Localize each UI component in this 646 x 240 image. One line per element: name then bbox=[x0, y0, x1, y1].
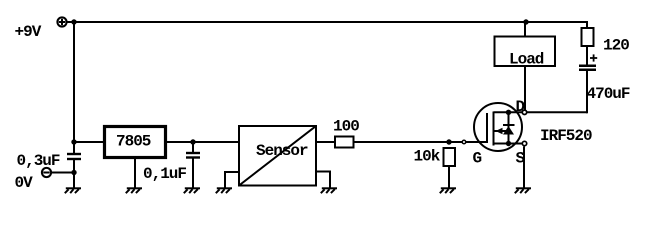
pin drain terminal circle bbox=[522, 110, 526, 114]
resistor R1 100 bbox=[335, 137, 354, 148]
resistor R3 120 bbox=[582, 28, 594, 46]
node top-left junction bbox=[71, 19, 76, 24]
wire R3 to C3 bbox=[586, 46, 588, 65]
svg-text:10k: 10k bbox=[414, 148, 441, 166]
sensor diagonal bbox=[239, 126, 316, 186]
wire top rail bbox=[67, 21, 587, 23]
capacitor C2 0,1uF bbox=[186, 153, 200, 158]
svg-text:G: G bbox=[473, 150, 482, 168]
svg-text:120: 120 bbox=[603, 37, 629, 55]
ground left rail bbox=[65, 188, 81, 193]
wire drain node horizontal bbox=[527, 111, 587, 113]
svg-text:100: 100 bbox=[333, 118, 359, 136]
wire 7805 output to sensor bbox=[166, 141, 239, 143]
transistor Q1 gate bar bbox=[486, 113, 488, 143]
wire load top lead bbox=[524, 22, 526, 36]
transistor Q1 channel bar bbox=[493, 112, 495, 146]
svg-text:0,3uF: 0,3uF bbox=[17, 152, 60, 170]
polarity plus sign C3 bbox=[590, 54, 597, 61]
ground source bbox=[515, 188, 531, 193]
sensor module box bbox=[239, 126, 316, 186]
wire 7805 ground lead bbox=[134, 158, 136, 188]
wire C2 top lead bbox=[192, 142, 194, 153]
transistor Q1 diode triangle bbox=[503, 126, 514, 135]
svg-text:+9V: +9V bbox=[15, 23, 42, 41]
wire sensor output bbox=[316, 141, 335, 143]
svg-text:Sensor: Sensor bbox=[256, 142, 308, 160]
regulator U1 7805 box bbox=[105, 127, 166, 158]
svg-text:7805: 7805 bbox=[116, 133, 151, 151]
transistor Q1 body diode line bbox=[508, 112, 510, 143]
wire left rail lower bbox=[73, 159, 75, 188]
ground C2 bbox=[184, 188, 200, 193]
resistor R2 10k bbox=[444, 148, 456, 166]
wire load bottom to drain bbox=[524, 66, 526, 110]
svg-text:IRF520: IRF520 bbox=[540, 127, 592, 145]
node load branch junction bbox=[523, 19, 528, 24]
transistor Q1 diode cathode bar bbox=[503, 124, 515, 126]
node drain dot bbox=[506, 110, 511, 115]
svg-text:0,1uF: 0,1uF bbox=[143, 165, 186, 183]
wire source to ground bbox=[523, 146, 525, 188]
node C2 junction bbox=[190, 139, 195, 144]
capacitor C1 0,3uF bbox=[67, 154, 81, 159]
wire left rail upper bbox=[73, 22, 75, 154]
transistor Q1 drain lead bbox=[494, 111, 525, 113]
ground sensor right bbox=[321, 188, 337, 193]
transistor Q1 body stub with arrow bbox=[494, 130, 509, 132]
svg-text:0V: 0V bbox=[15, 174, 34, 192]
svg-text:Load: Load bbox=[509, 51, 544, 69]
terminal +9V bbox=[57, 17, 66, 26]
terminal 0V bbox=[42, 168, 51, 177]
wire C3 bottom lead bbox=[586, 70, 588, 114]
ground sensor left bbox=[216, 188, 232, 193]
wire sensor left ground lead bbox=[225, 172, 239, 188]
svg-text:470uF: 470uF bbox=[587, 85, 630, 103]
wire top right corner down bbox=[586, 21, 588, 28]
wire R2 bottom lead bbox=[448, 166, 450, 188]
pin source terminal circle bbox=[522, 141, 526, 145]
load box bbox=[495, 37, 556, 67]
capacitor C3 470uF bbox=[579, 66, 596, 70]
node 0V junction bbox=[71, 170, 76, 175]
pin gate terminal circle bbox=[462, 140, 466, 144]
node source dot bbox=[506, 141, 511, 146]
wire R1 to gate bbox=[354, 141, 488, 143]
transistor Q1 source lead bbox=[494, 143, 525, 145]
node regulator input junction bbox=[71, 139, 76, 144]
wire sensor right ground lead bbox=[316, 172, 330, 189]
node R2 junction bbox=[446, 139, 451, 144]
wire C2 bottom lead bbox=[192, 158, 194, 189]
svg-text:D: D bbox=[516, 98, 525, 116]
ground 7805 bbox=[126, 188, 142, 193]
transistor Q1 IRF520 body circle bbox=[474, 103, 522, 151]
wire branch to 7805 input bbox=[74, 141, 104, 143]
ground R2 bbox=[440, 188, 456, 193]
wire 0V to rail bbox=[51, 172, 74, 174]
